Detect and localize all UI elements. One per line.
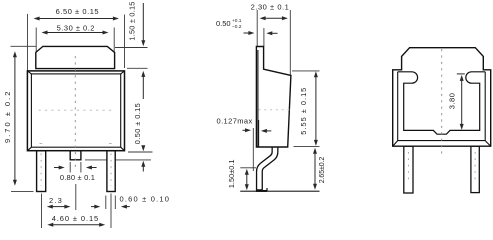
- extension line stub 0.80 left: [69, 162, 71, 173]
- package body side view: [256, 47, 291, 148]
- svg-text:5.30 ± 0.2: 5.30 ± 0.2: [57, 24, 95, 33]
- body inner bottom edge back view: [398, 140, 486, 142]
- middle stub lead: [70, 151, 81, 160]
- extension line tab-bottom to right: [127, 67, 148, 69]
- back edge thick line: [258, 120, 260, 147]
- dashed centerline back view: [441, 49, 443, 157]
- dimension 3.80 pad height: [447, 74, 465, 130]
- dimension 2.30±0.1 thickness: [251, 2, 290, 20]
- svg-text:3.80: 3.80: [447, 93, 456, 110]
- dimension 0.50±0.15 standoff: [133, 81, 145, 172]
- extension line body-right top: [124, 15, 126, 69]
- body outer rect front view: [27, 71, 124, 151]
- extension line tab-top to left: [11, 45, 37, 47]
- body corner chamfer top-right: [121, 71, 125, 74]
- dimension 0.127max: [217, 117, 272, 133]
- dimension 1.50±0.15 tab height: [128, 1, 146, 80]
- extension line bend top 1.50: [240, 167, 256, 169]
- body corner chamfer bottom-left: [27, 147, 31, 151]
- extension line right lead center: [110, 194, 112, 229]
- extension line middle lead center: [75, 184, 77, 210]
- foot bottom / extension redraw: [240, 190, 319, 192]
- extension line body-left top: [27, 14, 29, 71]
- extension line left lead center: [41, 194, 43, 229]
- horizontal dashed centerline side view: [259, 109, 290, 111]
- dimension 0.80±0.1 stub width: [54, 166, 97, 182]
- svg-text:0.127max: 0.127max: [217, 117, 253, 126]
- body outline back view: [393, 48, 491, 147]
- ejector mark right: [109, 142, 112, 144]
- svg-text:4.60 ± 0.15: 4.60 ± 0.15: [52, 214, 99, 223]
- svg-text:2.30 ± 0.1: 2.30 ± 0.1: [251, 2, 290, 11]
- extension line stub-bottom to right: [85, 159, 151, 161]
- left lead back view: [404, 146, 413, 193]
- extension line tab-front top: [263, 28, 265, 47]
- extension line side-right top: [289, 10, 291, 75]
- chamfer bottom-left back view: [393, 141, 398, 147]
- right lead back view: [471, 146, 479, 192]
- lead foot toe: [263, 188, 267, 191]
- svg-text:6.50 ± 0.15: 6.50 ± 0.15: [56, 7, 100, 16]
- vertical dashed centerline front view: [74, 56, 76, 167]
- body corner chamfer top-left: [27, 71, 31, 74]
- extension line right lead right edge: [114, 196, 116, 210]
- dimension 6.50±0.15: [34, 7, 119, 21]
- svg-text:5.55 ± 0.15: 5.55 ± 0.15: [299, 87, 308, 135]
- dimension 0.50 +0.1/-0.2 tab thickness: [216, 18, 278, 35]
- left lead: [37, 151, 46, 192]
- ejector mark left: [40, 142, 43, 144]
- extension line stub 0.80 right: [80, 162, 82, 173]
- body inner rect front view: [31, 74, 120, 147]
- right lead: [107, 151, 115, 192]
- svg-text:1.50±0.1: 1.50±0.1: [227, 159, 236, 188]
- svg-text:0.60 ± 0.10: 0.60 ± 0.10: [120, 194, 171, 203]
- dimension 1.50±0.1 foot: [227, 159, 249, 190]
- extension line body-bottom to right: [128, 151, 153, 153]
- dimension 9.70±0.2 height: [3, 51, 17, 185]
- extension line lead-bottom to left: [11, 190, 34, 192]
- body inner left edge back view: [397, 72, 399, 141]
- right lead dashes back view: [474, 152, 476, 180]
- extension line tab-left top: [35, 28, 37, 54]
- svg-text:2.3: 2.3: [49, 196, 63, 205]
- svg-text:1.50 ± 0.15: 1.50 ± 0.15: [128, 1, 137, 40]
- extension line side-left top: [256, 10, 258, 47]
- bent lead side view: [259, 146, 275, 191]
- dimension 5.55±0.15: [299, 71, 318, 146]
- back edge fatten: [257, 50, 259, 147]
- dimension 0.60±0.10 lead width: [91, 194, 170, 208]
- extension line body-bottom to right: [294, 145, 320, 147]
- svg-text:0.50 ± 0.15: 0.50 ± 0.15: [133, 103, 142, 144]
- svg-text:+0.1: +0.1: [232, 18, 242, 24]
- extension line body-top to right: [292, 70, 320, 72]
- tab outline front view: [36, 46, 115, 68]
- svg-text:2.65±0.2: 2.65±0.2: [319, 157, 326, 184]
- extension line tab-right top: [113, 28, 115, 54]
- svg-text:0.80 ± 0.1: 0.80 ± 0.1: [60, 173, 95, 182]
- svg-text:9.70 ± 0.2: 9.70 ± 0.2: [3, 90, 12, 143]
- extension line lead-back 0.127: [252, 128, 254, 171]
- chamfer bottom-right back view: [485, 141, 491, 147]
- dimension 2.65±0.2: [313, 148, 326, 190]
- horizontal dashed centerline front view: [39, 109, 114, 111]
- extension line foot bottom: [240, 190, 319, 192]
- body inner right edge back view: [484, 72, 486, 141]
- left lead dashes back view: [407, 152, 409, 180]
- extension line right lead left edge: [105, 196, 107, 210]
- left lead dashed centerline: [40, 154, 42, 187]
- dimension 4.60±0.15: [47, 214, 105, 227]
- right lead dashed centerline: [110, 154, 112, 187]
- exposed pad outline back view: [398, 72, 486, 134]
- svg-text:−0.2: −0.2: [232, 24, 242, 30]
- dimension 5.30±0.2: [42, 24, 109, 35]
- svg-text:0.50: 0.50: [216, 19, 231, 28]
- extension line tab-top to right: [115, 47, 148, 49]
- dimension 2.3 pitch: [47, 196, 71, 209]
- body corner chamfer bottom-right: [121, 147, 125, 151]
